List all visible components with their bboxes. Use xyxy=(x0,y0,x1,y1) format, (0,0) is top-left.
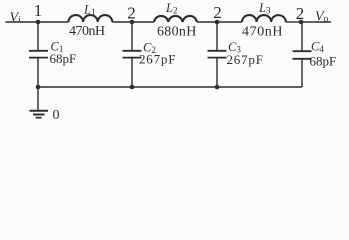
svg-text:68pF: 68pF xyxy=(50,51,77,66)
capacitor C3 top lead xyxy=(216,22,218,50)
capacitor C2 plates xyxy=(123,50,142,52)
svg-text:680nH: 680nH xyxy=(157,25,197,40)
capacitor C1 top lead xyxy=(37,22,39,50)
svg-text:267pF: 267pF xyxy=(227,52,264,67)
capacitor C1 bottom lead xyxy=(37,58,39,87)
capacitor C4 plates xyxy=(293,50,312,52)
wire L3 to output node xyxy=(286,21,301,23)
svg-text:470nH: 470nH xyxy=(69,24,105,39)
node 2 junction dot (after L3) xyxy=(299,20,304,25)
wire L1 to node 2 xyxy=(112,21,132,23)
wire node 1 to L1 xyxy=(38,21,69,23)
capacitor C4 top lead xyxy=(301,22,303,51)
capacitor C2 top lead xyxy=(131,22,133,50)
svg-text:0: 0 xyxy=(53,108,60,123)
ground stem xyxy=(37,87,39,111)
inductor L2 xyxy=(154,16,197,22)
node 2 junction dot (after L1) xyxy=(130,20,135,25)
svg-text:267pF: 267pF xyxy=(139,52,176,67)
svg-text:2: 2 xyxy=(296,4,305,23)
capacitor C3 plates xyxy=(208,50,227,52)
svg-text:L1: L1 xyxy=(83,3,95,18)
svg-text:L2: L2 xyxy=(165,1,177,16)
wire L2 to second node 2 xyxy=(197,21,217,23)
svg-text:470nH: 470nH xyxy=(242,25,283,40)
svg-text:L3: L3 xyxy=(258,1,271,16)
capacitor C2 bottom lead xyxy=(131,58,133,87)
node 2 junction dot (after L2) xyxy=(215,20,220,25)
svg-text:2: 2 xyxy=(213,3,222,22)
ground rail wire xyxy=(38,86,302,88)
svg-text:68pF: 68pF xyxy=(310,54,337,69)
svg-text:Vi: Vi xyxy=(10,11,22,26)
bottom rail junction dot under C3 xyxy=(215,85,220,90)
ground bars xyxy=(30,110,49,112)
inductor L1 xyxy=(69,15,113,22)
wire Vi to node 1 xyxy=(6,21,39,23)
svg-text:2: 2 xyxy=(127,4,136,23)
capacitor C1 plates xyxy=(29,50,48,52)
bottom rail junction dot under C1 xyxy=(36,85,41,90)
bottom rail junction dot under C2 xyxy=(130,85,135,90)
capacitor C4 bottom lead xyxy=(301,60,303,88)
node 1 junction dot xyxy=(36,20,41,25)
inductor L3 xyxy=(242,15,286,22)
svg-text:Vo: Vo xyxy=(315,9,329,24)
svg-text:1: 1 xyxy=(34,1,43,20)
wire second node 2 to L3 xyxy=(217,21,242,23)
wire output node to Vo xyxy=(301,21,331,23)
wire node 2 to L2 xyxy=(132,21,154,23)
svg-text:C4: C4 xyxy=(311,40,324,55)
capacitor C3 bottom lead xyxy=(216,58,218,87)
